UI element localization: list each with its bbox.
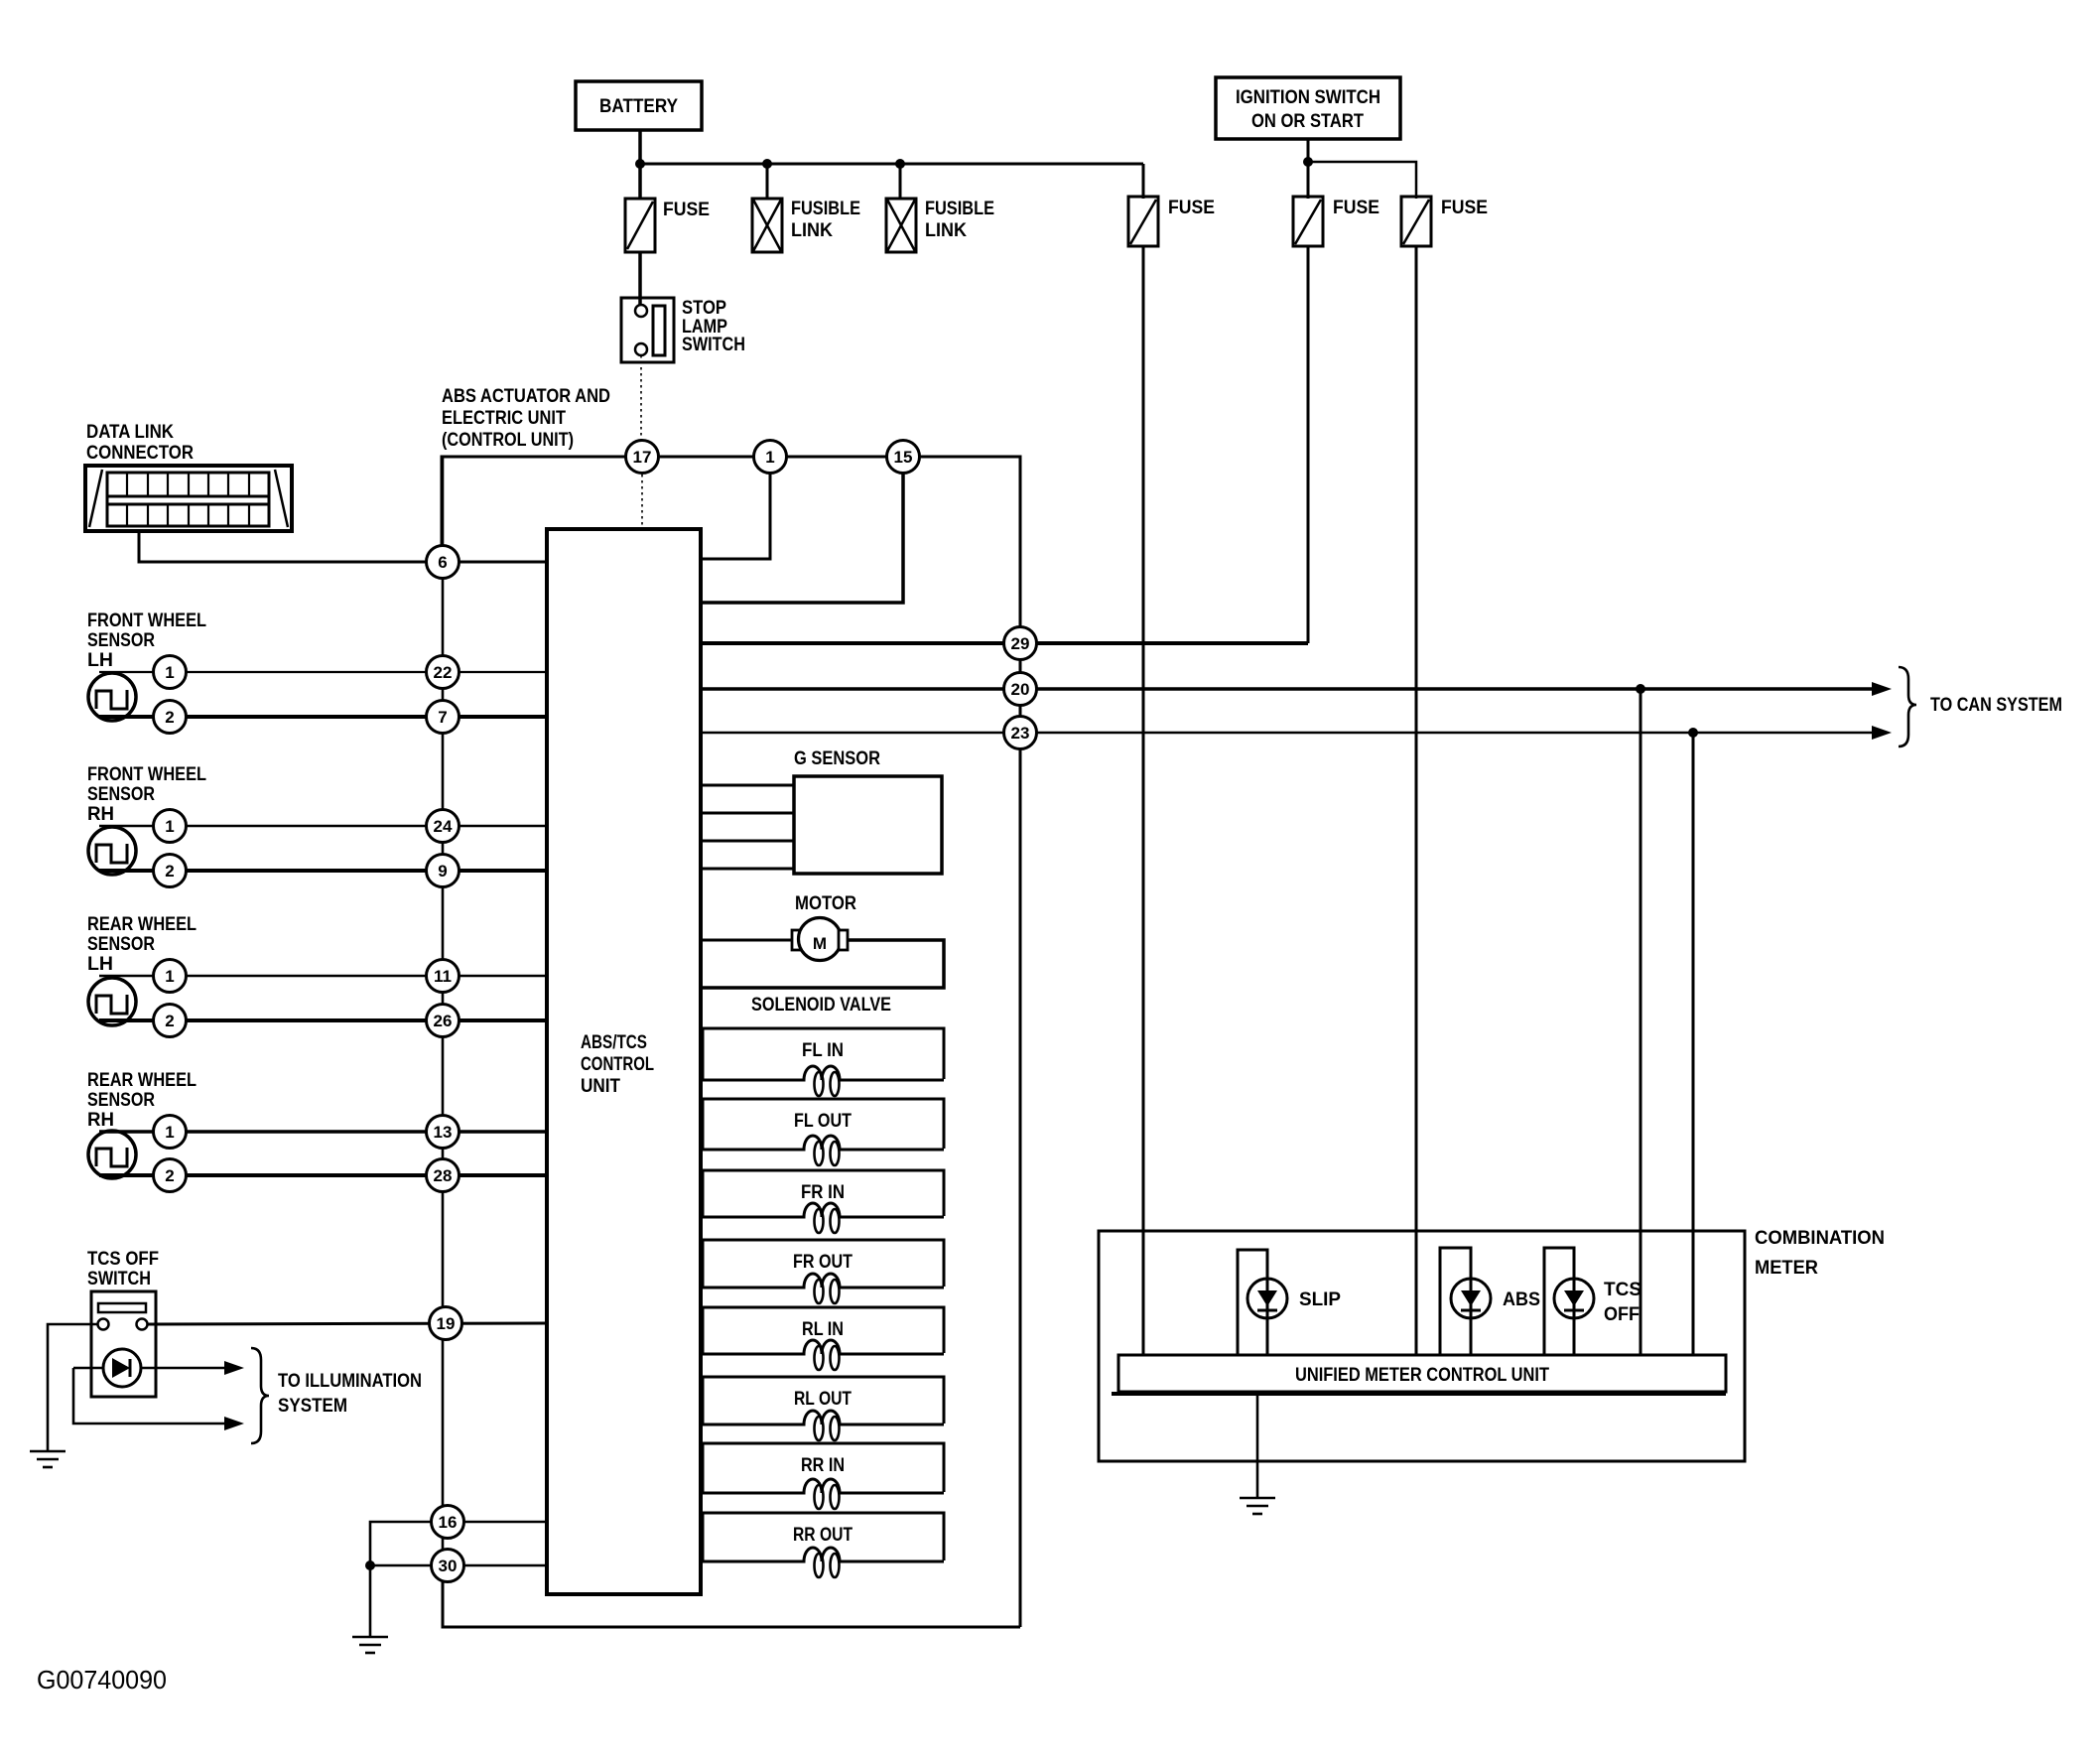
svg-text:FR OUT: FR OUT — [793, 1252, 853, 1273]
wire fusible link 2 drop — [899, 164, 902, 199]
svg-text:1: 1 — [165, 663, 174, 682]
svg-text:17: 17 — [633, 448, 652, 467]
LED ABS — [1440, 1248, 1540, 1355]
node CAN branch 2 — [1688, 728, 1698, 738]
svg-text:20: 20 — [1011, 680, 1030, 699]
wire data link connector to pin 6 — [139, 531, 427, 562]
wire stop lamp switch to pin 17 — [640, 355, 642, 441]
svg-text:TO CAN SYSTEM: TO CAN SYSTEM — [1930, 695, 2062, 716]
node ignition junction — [1303, 157, 1313, 167]
battery B1 — [576, 81, 702, 130]
svg-text:SWITCH: SWITCH — [87, 1269, 151, 1289]
node ground junction — [365, 1560, 375, 1570]
svg-text:LH: LH — [87, 650, 113, 671]
svg-text:2: 2 — [165, 708, 174, 727]
front wheel sensor RH — [88, 827, 136, 875]
wire RWS LH pin1 to 11 — [99, 975, 547, 978]
svg-text:FUSE: FUSE — [1333, 198, 1379, 218]
fuse F2 — [1128, 197, 1215, 246]
wire ground drop — [369, 1565, 372, 1637]
pin 30 — [432, 1550, 464, 1582]
ignition switch box — [1216, 77, 1400, 139]
pin 24 — [427, 810, 459, 843]
terminal 1 FWS LH — [154, 656, 187, 689]
unified meter control unit — [1112, 1355, 1726, 1394]
wire battery bus — [640, 163, 1143, 166]
solenoid valve RR IN — [703, 1443, 944, 1509]
svg-text:7: 7 — [438, 708, 447, 727]
svg-text:FL IN: FL IN — [802, 1040, 844, 1061]
pin 11 — [427, 960, 459, 993]
wire FWS RH pin2 to 9 — [99, 869, 547, 873]
svg-text:SENSOR: SENSOR — [87, 934, 155, 955]
wire ignition stem — [1307, 139, 1310, 199]
terminal 1 FWS RH — [154, 810, 187, 843]
pin 29 — [1004, 627, 1037, 660]
pin 9 — [427, 855, 459, 887]
svg-text:1: 1 — [765, 448, 774, 467]
svg-text:FRONT WHEEL: FRONT WHEEL — [87, 764, 206, 785]
fuse F3 — [1293, 197, 1379, 246]
node fusible link 1 junction — [762, 159, 772, 169]
solenoid valve FL OUT — [703, 1099, 944, 1165]
wire pin 30 to right return — [443, 1581, 1020, 1627]
combination meter label — [1755, 1228, 1885, 1279]
svg-text:ABS ACTUATOR AND: ABS ACTUATOR AND — [442, 386, 610, 407]
wire fuse F4 down to combination meter — [1415, 246, 1418, 1355]
svg-text:FUSE: FUSE — [663, 200, 710, 220]
svg-text:19: 19 — [437, 1314, 456, 1333]
combination meter box — [1099, 1231, 1745, 1461]
wire pin 15 drop — [701, 457, 903, 603]
terminal 2 FWS LH — [154, 701, 187, 734]
rear wheel sensor RH label — [87, 1070, 197, 1131]
wire pin 30 branch — [370, 1564, 547, 1567]
ground pin 30 — [352, 1637, 388, 1653]
wire FWS LH pin2 to 7 — [99, 715, 547, 719]
svg-text:13: 13 — [434, 1123, 453, 1142]
pin 26 — [427, 1005, 459, 1037]
svg-text:6: 6 — [438, 553, 447, 572]
LED D1 illumination — [73, 1349, 226, 1387]
svg-text:RH: RH — [87, 804, 114, 825]
rear wheel sensor LH label — [87, 914, 197, 975]
svg-text:OFF: OFF — [1604, 1304, 1640, 1325]
front wheel sensor RH label — [87, 764, 206, 825]
ABS/TCS control unit U1 — [547, 529, 701, 1594]
svg-text:SENSOR: SENSOR — [87, 630, 155, 651]
wire fuse F1 to stop lamp switch — [638, 252, 642, 306]
TCS off switch S2 — [91, 1291, 156, 1397]
svg-text:MOTOR: MOTOR — [795, 893, 856, 914]
wire FWS RH pin1 to 24 — [99, 825, 547, 828]
pin 1 — [754, 441, 787, 474]
wire pin 17 drop — [641, 457, 643, 529]
wire ignition branch to fuse F4 — [1308, 162, 1416, 199]
pin 19 — [430, 1307, 462, 1340]
svg-text:9: 9 — [438, 862, 447, 881]
svg-text:FUSE: FUSE — [1168, 198, 1215, 218]
pin 7 — [427, 701, 459, 734]
wire fuse F2 down to combination meter — [1142, 246, 1145, 1355]
svg-text:SYSTEM: SYSTEM — [278, 1396, 347, 1417]
svg-text:1: 1 — [165, 1123, 174, 1142]
rear wheel sensor RH — [88, 1131, 136, 1178]
svg-text:RL IN: RL IN — [802, 1319, 844, 1340]
rear wheel sensor LH — [88, 978, 136, 1025]
LED SLIP — [1238, 1250, 1341, 1355]
wire pin 6 to control unit — [443, 561, 547, 564]
arrow illumination 1 — [224, 1361, 244, 1375]
wire pin 29 to ignition fuse — [701, 641, 1308, 645]
svg-text:FL OUT: FL OUT — [794, 1111, 852, 1132]
solenoid valve RL OUT — [703, 1377, 944, 1440]
fusible link FL1 — [752, 199, 860, 252]
node CAN branch 1 — [1636, 684, 1645, 694]
fusible link FL2 — [886, 199, 994, 252]
G sensor wires — [701, 785, 794, 869]
node battery junction — [635, 159, 645, 169]
pin 20 — [1004, 673, 1037, 706]
terminal 2 FWS RH — [154, 855, 187, 887]
brace CAN — [1899, 667, 1916, 746]
wire fuse F3 down to pin 29 wire — [1307, 246, 1310, 643]
svg-text:FR IN: FR IN — [801, 1182, 845, 1203]
data link connector label — [86, 422, 194, 464]
svg-text:LH: LH — [87, 954, 113, 975]
pin 22 — [427, 656, 459, 689]
svg-text:G SENSOR: G SENSOR — [794, 748, 880, 769]
svg-text:REAR WHEEL: REAR WHEEL — [87, 1070, 197, 1091]
arrow CAN 1 — [1872, 682, 1892, 696]
to illumination system label — [278, 1371, 422, 1417]
svg-text:2: 2 — [165, 1166, 174, 1185]
wire battery stem — [638, 130, 642, 199]
arrow illumination 2 — [224, 1417, 244, 1430]
svg-text:STOP: STOP — [682, 298, 726, 319]
svg-text:ABS/TCS: ABS/TCS — [581, 1032, 647, 1053]
svg-text:DATA LINK: DATA LINK — [86, 422, 174, 443]
svg-text:FUSIBLE: FUSIBLE — [791, 199, 860, 219]
data link connector — [85, 466, 292, 531]
wire bus corner to fuse F2 — [1142, 164, 1145, 199]
svg-text:SLIP: SLIP — [1299, 1289, 1341, 1310]
svg-text:24: 24 — [434, 817, 453, 836]
svg-text:CONNECTOR: CONNECTOR — [86, 443, 194, 464]
ground TCS switch — [30, 1451, 66, 1467]
TCS off switch label — [87, 1249, 159, 1289]
front wheel sensor LH label — [87, 610, 206, 671]
svg-text:RL OUT: RL OUT — [794, 1389, 852, 1410]
terminal 2 RWS RH — [154, 1159, 187, 1192]
svg-text:FUSIBLE: FUSIBLE — [925, 199, 994, 219]
svg-text:TCS OFF: TCS OFF — [87, 1249, 159, 1270]
solenoid valve FR OUT — [703, 1240, 944, 1303]
arrow CAN 2 — [1872, 726, 1892, 740]
wire meter ground — [1256, 1394, 1259, 1498]
svg-text:ON OR START: ON OR START — [1251, 111, 1364, 132]
svg-text:LINK: LINK — [791, 220, 833, 241]
wire pin 23 to CAN — [701, 732, 1874, 734]
wire fusible link 1 drop — [766, 164, 769, 199]
svg-text:30: 30 — [439, 1557, 458, 1575]
svg-text:26: 26 — [434, 1012, 453, 1030]
wire RWS LH pin2 to 26 — [99, 1018, 547, 1022]
svg-text:SENSOR: SENSOR — [87, 1090, 155, 1111]
wire pin 20 to CAN — [701, 687, 1874, 691]
G sensor box — [794, 776, 942, 874]
wire right vertical bus — [1019, 643, 1022, 1627]
terminal 1 RWS RH — [154, 1116, 187, 1149]
solenoid valve FL IN — [703, 1028, 944, 1096]
svg-text:CONTROL: CONTROL — [581, 1054, 654, 1075]
svg-text:SENSOR: SENSOR — [87, 784, 155, 805]
svg-text:23: 23 — [1011, 724, 1030, 743]
wire CAN branch 2 down — [1692, 733, 1695, 1355]
svg-text:TO ILLUMINATION: TO ILLUMINATION — [278, 1371, 422, 1392]
svg-text:15: 15 — [894, 448, 913, 467]
wire connector row 17-1-15 — [442, 457, 1020, 643]
terminal 2 RWS LH — [154, 1005, 187, 1037]
pin 6 — [427, 546, 459, 579]
svg-text:G00740090: G00740090 — [37, 1665, 167, 1695]
pin 15 — [887, 441, 920, 474]
stop lamp switch S1 — [621, 298, 745, 362]
svg-text:FRONT WHEEL: FRONT WHEEL — [87, 610, 206, 631]
svg-text:2: 2 — [165, 862, 174, 881]
solenoid valve FR IN — [703, 1170, 944, 1233]
pin 13 — [427, 1116, 459, 1149]
front wheel sensor LH — [88, 673, 136, 721]
svg-text:SOLENOID VALVE: SOLENOID VALVE — [751, 995, 891, 1016]
wire TCS switch to pin 19 — [148, 1323, 547, 1324]
svg-text:1: 1 — [165, 967, 174, 986]
svg-text:28: 28 — [434, 1166, 453, 1185]
fuse F4 — [1401, 197, 1488, 246]
wire FWS LH pin1 to 22 — [99, 671, 547, 673]
solenoid valve RR OUT — [703, 1513, 944, 1577]
svg-text:22: 22 — [434, 663, 453, 682]
svg-text:METER: METER — [1755, 1258, 1818, 1279]
svg-text:RR OUT: RR OUT — [793, 1525, 853, 1546]
wire illumination lower branch — [73, 1368, 226, 1424]
svg-text:29: 29 — [1011, 634, 1030, 653]
wire pin bus vertical — [442, 457, 445, 1627]
brace illumination — [251, 1348, 269, 1443]
svg-text:1: 1 — [165, 817, 174, 836]
pin 28 — [427, 1159, 459, 1192]
svg-text:16: 16 — [439, 1513, 458, 1532]
motor M1 — [701, 918, 944, 989]
wire TCS switch left terminal to ground — [48, 1324, 97, 1451]
solenoid valve RL IN — [703, 1307, 944, 1370]
fuse F1 — [625, 199, 710, 252]
svg-text:(CONTROL UNIT): (CONTROL UNIT) — [442, 430, 574, 451]
node fusible link 2 junction — [895, 159, 905, 169]
svg-text:RR IN: RR IN — [801, 1455, 845, 1476]
terminal 1 RWS LH — [154, 960, 187, 993]
svg-text:ABS: ABS — [1503, 1289, 1540, 1310]
svg-text:SWITCH: SWITCH — [682, 335, 745, 355]
pin 16 — [432, 1506, 464, 1539]
svg-text:BATTERY: BATTERY — [599, 96, 678, 117]
wire CAN branch 1 down — [1640, 689, 1642, 1355]
svg-text:ELECTRIC UNIT: ELECTRIC UNIT — [442, 408, 566, 429]
svg-text:COMBINATION: COMBINATION — [1755, 1228, 1885, 1249]
pin 23 — [1004, 717, 1037, 749]
svg-text:LINK: LINK — [925, 220, 967, 241]
svg-text:11: 11 — [434, 967, 452, 986]
wire pin 1 drop — [701, 457, 770, 559]
svg-text:UNIFIED METER CONTROL UNIT: UNIFIED METER CONTROL UNIT — [1295, 1365, 1549, 1386]
ABS actuator label — [442, 386, 610, 451]
ground combination meter — [1240, 1498, 1275, 1514]
svg-text:2: 2 — [165, 1012, 174, 1030]
wire RWS RH pin2 to 28 — [99, 1173, 547, 1177]
svg-text:TCS: TCS — [1604, 1280, 1641, 1300]
pin 17 — [626, 441, 659, 474]
LED TCS OFF — [1544, 1248, 1641, 1355]
svg-text:IGNITION SWITCH: IGNITION SWITCH — [1236, 87, 1380, 108]
svg-text:REAR WHEEL: REAR WHEEL — [87, 914, 197, 935]
svg-text:RH: RH — [87, 1110, 114, 1131]
wire pin 16 branch — [370, 1522, 547, 1565]
wire RWS RH pin1 to 13 — [99, 1130, 547, 1134]
svg-text:FUSE: FUSE — [1441, 198, 1488, 218]
svg-text:UNIT: UNIT — [581, 1076, 620, 1097]
svg-text:M: M — [813, 934, 827, 953]
